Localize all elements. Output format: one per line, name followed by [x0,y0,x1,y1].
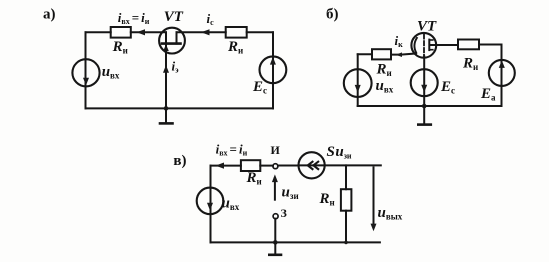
wire resistor to top-right corner [247,31,273,33]
ground (circuit a) [165,108,167,123]
wire right vertical [501,45,503,107]
svg-text:VT: VT [417,18,437,34]
wire left vertical [85,32,87,108]
wire dependent source to right end [325,164,381,166]
source E_a (circuit b) [489,60,515,86]
node junction dot (circuit v) [273,240,278,245]
node I (gate terminal circle) [273,164,278,169]
transistor right stub [428,40,430,51]
source u_vx (circuit a) [72,59,99,86]
resistor R2 (R_i right, circuit a) [226,27,247,38]
wire branch down to R_n [345,165,347,189]
wire right vertical [272,32,274,108]
source E_c (circuit a) [260,56,287,83]
current arrow i_k [396,52,402,57]
resistor R6 (R_n, circuit v) [341,189,352,211]
wire resistor to top-right corner [479,44,502,46]
transistor U2 (VT, circuit b) [411,33,436,58]
wire transistor bottom lead [423,56,425,106]
voltage arrow u_vyx [373,168,375,228]
source u_vx (circuit v) [197,188,224,215]
transistor central bar (dashed) [423,34,425,56]
source E_c (circuit b) [411,69,438,96]
resistor R3 (R_i left, circuit b) [372,49,391,59]
wire left vertical [357,54,359,106]
resistor R4 (R_i right, circuit b) [458,40,479,50]
wire resistor to left corner [358,53,372,55]
svg-text:в): в) [173,153,186,169]
current arrow i_e [163,65,169,73]
node junction dot (circuit a) [164,106,169,111]
wire transistor to left resistor [391,54,416,55]
node junction dot (circuit b) [422,104,427,109]
transistor U1 (VT, circuit a) [159,28,185,54]
wire top-left segment [86,31,111,33]
wire emitter vertical [165,44,167,109]
transistor internal right stub [176,32,178,43]
wire resistor to transistor [131,31,166,33]
current arrow i_vx=i_i [137,29,146,35]
svg-text:З: З [281,206,287,220]
ground (circuit b) [423,106,425,124]
svg-text:И: И [271,143,281,157]
source u_vx (circuit b) [344,69,372,97]
svg-text:б): б) [326,6,339,22]
dependent source Su_zi (circuit v) [299,152,325,178]
wire R_n to bottom [345,211,347,243]
node junction dot R_n bottom [344,241,348,245]
svg-text:VT: VT [164,9,184,25]
wire bottom (circuit v) [211,241,380,243]
resistor R5 (R_i, circuit v) [241,160,260,171]
wire transistor to right resistor [430,44,459,46]
transistor emitter arc [414,38,416,53]
transistor emitter arrow [163,44,169,51]
node Z (source terminal circle) [273,214,278,219]
voltage arrow u_zi [274,178,276,200]
wire node Z to bottom wire [274,219,276,243]
resistor R1 (R_i left, circuit a) [111,27,131,38]
transistor internal left stub [165,32,167,43]
wire left vertical (circuit v) [210,166,212,243]
wire resistor to node I [260,165,273,167]
wire node I to dependent source [278,165,299,167]
wire bottom (circuit b) [358,105,502,107]
transistor base bar [162,42,181,45]
current arrow i_vx=i_i (circuit v) [216,163,225,169]
wire transistor to right resistor [177,31,226,33]
current arrow i_c [201,29,210,35]
wire top-left [211,165,241,167]
ground (circuit v) [274,242,276,254]
wire bottom [86,107,274,109]
svg-text:а): а) [43,6,56,22]
